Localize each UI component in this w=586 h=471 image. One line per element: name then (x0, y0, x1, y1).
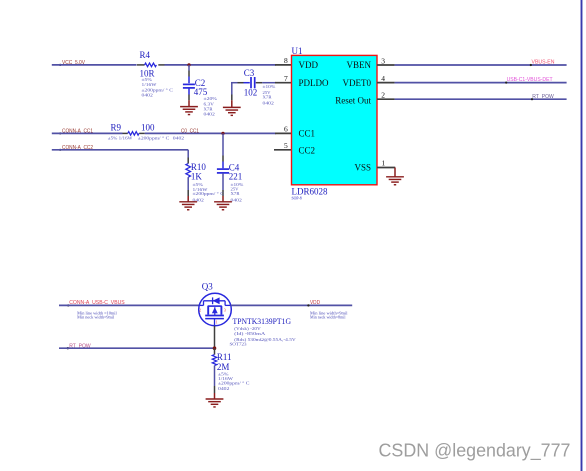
svg-text:3: 3 (381, 56, 385, 65)
svg-text:VDET0: VDET0 (343, 78, 372, 88)
wire USB-C1-VBUS-DET (395, 82, 567, 84)
svg-text:Min neck width=8mil: Min neck width=8mil (310, 315, 346, 320)
svg-text:(Id) -850mA: (Id) -850mA (234, 331, 266, 336)
capacitor C4 (217, 162, 244, 202)
wire R4 to U1 pin 8 (165, 64, 277, 66)
ground under C4 (214, 196, 232, 210)
net label USB-C1-VBUS-DET (505, 77, 553, 84)
svg-text:0402: 0402 (142, 92, 153, 97)
U1 pin 4 (377, 74, 395, 83)
svg-text:SOP-8: SOP-8 (292, 196, 302, 200)
svg-text:0402: 0402 (218, 386, 229, 391)
svg-text:4: 4 (381, 74, 385, 83)
resistor R9 (108, 122, 184, 140)
junction gate/R11 (213, 346, 217, 350)
text part spec TPNTK3139PT1G (230, 316, 297, 346)
resistor R4 (137, 50, 173, 98)
svg-text:1: 1 (382, 158, 386, 167)
resistor R11 (212, 352, 249, 393)
svg-text:102: 102 (244, 88, 257, 98)
ground under R11 (206, 393, 224, 407)
wire VBUS-EN (395, 64, 567, 66)
capacitor C2 (183, 65, 217, 116)
svg-text:1/16W: 1/16W (142, 82, 158, 87)
svg-text:VBEN: VBEN (347, 60, 372, 70)
junction CC1/C4 (221, 132, 224, 135)
svg-text:8: 8 (284, 56, 288, 65)
svg-text:C0_CC1: C0_CC1 (181, 128, 199, 134)
annotation min line width (left) (77, 310, 117, 319)
svg-text:1K: 1K (191, 172, 203, 182)
wire VCC_5.0V (52, 64, 137, 66)
svg-text:Min neck width=9mil: Min neck width=9mil (77, 315, 115, 320)
svg-text:3: 3 (224, 308, 226, 313)
svg-text:7: 7 (284, 74, 288, 83)
wire CONN-A_CC2 to R10 (52, 149, 188, 151)
svg-text:PDLDO: PDLDO (299, 78, 330, 88)
wire RT_POW (right) (395, 98, 567, 100)
resistor R10 (186, 162, 224, 202)
svg-text:R9: R9 (111, 122, 122, 132)
net label CONN-A_USB-C_VBUS (67, 300, 125, 307)
svg-text:CC1: CC1 (299, 128, 316, 138)
wire Q3 drain to VDD (231, 304, 352, 306)
svg-text:VDD: VDD (310, 300, 320, 306)
junction VCC/C2 (187, 63, 190, 66)
svg-text:6: 6 (284, 125, 288, 134)
wire CONN-A_CC1 to R9 (52, 132, 123, 134)
U1 pin 1 (VSS) (377, 158, 395, 167)
net label CONN-A_CC2 (59, 145, 93, 151)
svg-text:1: 1 (216, 320, 218, 325)
op-amp / IC U1 LDR6028 (292, 46, 378, 200)
ground under R10 (179, 196, 197, 210)
U1 pin 3 (377, 56, 395, 65)
U1 pin 5 (274, 141, 292, 150)
ground under C2 (180, 100, 198, 114)
svg-text:CC2: CC2 (299, 146, 316, 156)
svg-text:C3: C3 (244, 68, 255, 78)
svg-text:±10%: ±10% (263, 84, 276, 89)
U1 pin 7 (275, 74, 292, 83)
net label VCC_5.0V (59, 60, 85, 66)
svg-text:VSS: VSS (354, 163, 371, 173)
net label VBUS-EN (530, 60, 555, 66)
svg-text:VDD: VDD (299, 60, 319, 70)
svg-text:0402: 0402 (173, 135, 184, 140)
capacitor C3 (231, 68, 276, 105)
transistor Q3 (P-MOSFET) (199, 282, 232, 326)
svg-text:2: 2 (199, 308, 201, 313)
svg-text:2: 2 (381, 91, 385, 100)
U1 pin 2 (377, 91, 395, 100)
svg-text:0402: 0402 (231, 197, 242, 202)
svg-text:VBUS-EN: VBUS-EN (532, 60, 555, 66)
svg-text:±200ppm/ ° C: ±200ppm/ ° C (218, 380, 250, 385)
svg-text:RT_POW: RT_POW (532, 94, 554, 100)
svg-text:0402: 0402 (204, 111, 215, 116)
svg-text:±5% 1/16W: ±5% 1/16W (108, 135, 133, 140)
svg-text:Q3: Q3 (202, 282, 213, 292)
svg-text:2M: 2M (217, 362, 230, 372)
wire RT_POW to gate junction (59, 347, 215, 349)
svg-text:100: 100 (141, 122, 155, 132)
svg-text:TPNTK3139PT1G: TPNTK3139PT1G (233, 316, 292, 326)
svg-text:R4: R4 (140, 50, 151, 60)
net label RT_POW (right) (531, 94, 555, 100)
svg-text:0402: 0402 (263, 100, 274, 105)
wire R9 to U1 pin 6 (145, 132, 276, 134)
svg-text:R11: R11 (217, 352, 232, 362)
annotation min line width (right) (310, 310, 348, 319)
svg-text:5: 5 (284, 141, 288, 150)
ground under C3 (223, 100, 241, 115)
svg-text:±20%: ±20% (204, 96, 218, 101)
net label CONN-A_CC1 (59, 128, 93, 134)
ground at U1 pin 1 (386, 168, 404, 185)
svg-text:U1: U1 (292, 46, 303, 56)
U1 pin 8 (275, 56, 292, 65)
svg-text:±200ppm/ ° C: ±200ppm/ ° C (138, 135, 170, 140)
wire Q3 gate to RT_POW (214, 319, 216, 326)
svg-text:±200ppm/ ° C: ±200ppm/ ° C (193, 191, 225, 196)
svg-text:221: 221 (229, 172, 243, 182)
svg-text:X7R: X7R (263, 94, 272, 99)
U1 pin 6 (275, 125, 292, 134)
net label RT_POW (bottom) (67, 343, 92, 349)
svg-text:Reset Out: Reset Out (335, 95, 371, 105)
wire junction to C4 (222, 133, 224, 155)
svg-text:LDR6028: LDR6028 (292, 186, 329, 196)
wire junction to R11 (214, 348, 216, 354)
net label VDD (307, 300, 320, 306)
svg-text:CSDN @legendary_777: CSDN @legendary_777 (379, 440, 571, 462)
svg-text:USB-C1-VBUS-DET: USB-C1-VBUS-DET (507, 77, 554, 83)
wire CONN-A_USB-C_VBUS to Q3 source (59, 304, 199, 306)
svg-text:X7R: X7R (231, 191, 240, 196)
svg-text:SOT723: SOT723 (230, 341, 248, 346)
